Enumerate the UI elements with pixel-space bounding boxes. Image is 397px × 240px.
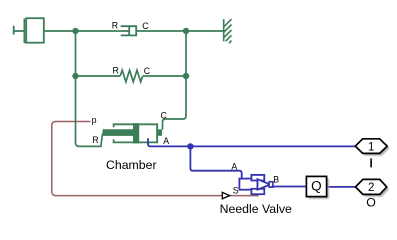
node junction dot green spring-right: [183, 73, 189, 79]
wire mass to damper: [44, 30, 129, 32]
svg-text:R: R: [112, 21, 118, 31]
svg-text:R: R: [92, 135, 98, 145]
Q block shadow: [309, 179, 329, 199]
svg-text:1: 1: [368, 141, 374, 153]
needle valve cone triangle: [258, 179, 271, 190]
svg-text:B: B: [273, 174, 279, 184]
damper R-C (cylinder open left, piston): [121, 26, 137, 35]
anchor port T-bar left of mass: [14, 26, 25, 35]
node junction dot green top-left: [72, 28, 78, 34]
wire brown p-to-S signal line: [52, 122, 223, 196]
svg-text:Chamber: Chamber: [106, 158, 157, 172]
outport 2 hexagon: [356, 179, 387, 194]
svg-text:p: p: [92, 115, 97, 125]
svg-text:C: C: [161, 111, 168, 121]
wire spring right: [143, 75, 186, 77]
svg-text:C: C: [142, 21, 149, 31]
wire spring left: [76, 75, 121, 77]
chamber piston plate: [133, 123, 139, 143]
needle valve upper seat: [251, 175, 264, 181]
node junction dot green top-right: [183, 28, 189, 34]
Q block: [306, 176, 326, 196]
outport 1 shadow: [358, 141, 390, 156]
wire blue valve B to Q block: [272, 186, 307, 188]
chamber nozzle stub: [158, 129, 162, 135]
needle valve lower seat: [251, 189, 264, 194]
wire left vertical from node1 down to chamber R: [76, 31, 103, 146]
chamber right wall: [156, 123, 158, 143]
svg-text:C: C: [144, 66, 151, 76]
svg-text:S: S: [233, 186, 239, 196]
arrowhead S input port arrow: [222, 192, 229, 199]
needle valve outlet stub: [269, 182, 273, 188]
label I port name: [370, 158, 372, 167]
svg-text:Q: Q: [311, 179, 322, 194]
mass block M: [23, 19, 25, 44]
chamber cylinder bottom wall: [113, 139, 158, 143]
outport 1 hexagon: [355, 139, 387, 154]
node junction dot green spring-left: [72, 73, 78, 79]
svg-text:Needle Valve: Needle Valve: [220, 202, 292, 216]
wire brown under needle valve: [230, 195, 259, 197]
chamber cylinder top wall: [113, 123, 158, 127]
outport 2 shadow: [358, 182, 389, 197]
wire right vertical node to node: [185, 31, 187, 76]
svg-text:A: A: [231, 161, 237, 171]
svg-text:O: O: [366, 196, 376, 210]
wire damper to wall: [136, 30, 223, 32]
needle valve body: [239, 179, 257, 190]
node junction dot blue: [187, 143, 193, 149]
svg-text:R: R: [113, 65, 119, 75]
mechanical reference wall: [224, 19, 232, 43]
wire blue Q block to port2: [327, 186, 356, 188]
chamber piston rod: [102, 129, 133, 136]
wire blue chamber A to port1: [148, 138, 355, 146]
svg-text:2: 2: [368, 182, 374, 194]
wire right vertical down to chamber C: [163, 76, 187, 130]
spring R-C zigzag: [120, 70, 142, 82]
wire blue branch down to valve A: [190, 146, 241, 182]
svg-text:A: A: [163, 136, 169, 146]
